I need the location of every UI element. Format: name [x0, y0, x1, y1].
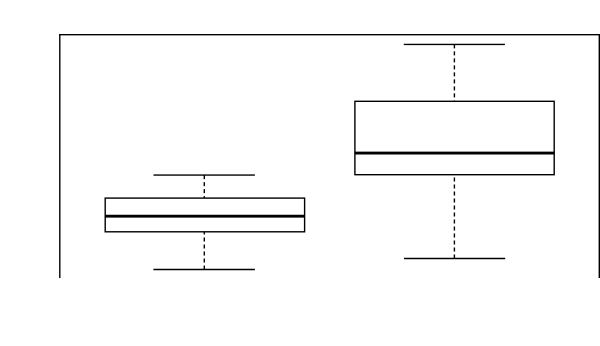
- boxplot 1 upper whisker (dashed): [203, 175, 205, 198]
- plot frame right edge: [598, 34, 600, 278]
- boxplot 1 median line: [105, 215, 304, 218]
- boxplot 2 lower whisker (dashed): [453, 175, 455, 259]
- boxplot 2 box (IQR): [355, 101, 554, 174]
- boxplot 2 median line: [355, 152, 554, 155]
- boxplot 2 upper whisker cap: [404, 43, 505, 45]
- boxplot 1 lower whisker (dashed): [203, 232, 205, 270]
- boxplot 1 lower whisker cap: [153, 269, 255, 271]
- plot frame left edge: [59, 34, 61, 278]
- boxplot 2 lower whisker cap: [404, 258, 505, 260]
- boxplot 2 upper whisker (dashed): [453, 44, 455, 101]
- boxplot 1 box (IQR): [105, 198, 304, 232]
- boxplot 1 upper whisker cap: [154, 174, 255, 176]
- plot frame top edge: [59, 34, 600, 36]
